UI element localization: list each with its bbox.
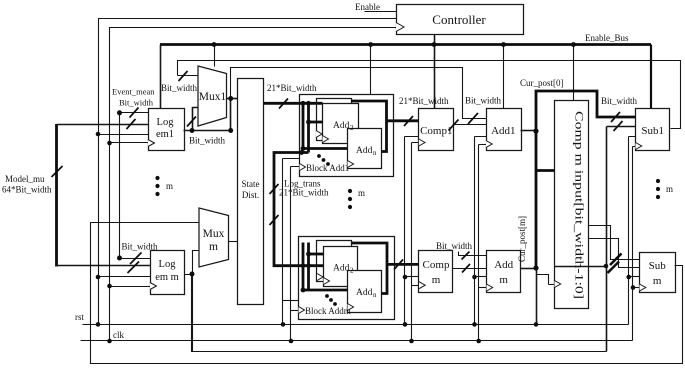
slash on log em1 output riser — [187, 117, 196, 127]
label Bit_width (comp m) — [436, 241, 473, 251]
wire into comp m input box left — [555, 266, 607, 268]
node log em m output — [190, 272, 195, 277]
svg-text:m: m — [166, 181, 173, 191]
controller U1 — [397, 5, 524, 35]
wire block addm feed to addnm — [303, 289, 348, 292]
clock triangle log em m — [150, 283, 157, 290]
mux1 — [198, 66, 227, 126]
wire log em m output node — [185, 251, 199, 352]
clock triangle add m — [487, 284, 493, 291]
svg-text:Cur_post[m]: Cur_post[m] — [517, 216, 527, 262]
svg-text:Dist.: Dist. — [242, 190, 259, 200]
slash on block addm output — [394, 260, 403, 270]
clock triangle stack rect addm — [317, 274, 323, 281]
line3 log em m feedback — [192, 275, 607, 352]
svg-text:m: m — [653, 275, 662, 287]
label Model_mu — [5, 174, 45, 184]
slash on sub1 second input — [614, 121, 623, 131]
wire block addm internal vertical a — [302, 243, 305, 291]
wire rst stub into log em m — [99, 276, 151, 278]
adder Add2 (block addm) — [324, 247, 358, 287]
svg-text:Add: Add — [494, 259, 513, 271]
subtractor Sub1 — [636, 109, 670, 151]
label Block Add1 — [306, 163, 349, 173]
wire comp m input box output a to sub m — [589, 226, 640, 260]
wire comp m input box clock feed — [537, 275, 555, 285]
svg-text:Sub1: Sub1 — [641, 125, 664, 137]
node cur_post[0] — [533, 128, 538, 133]
slashes on comp m to add m wires — [462, 252, 471, 273]
wire enable_bus drop to mux1 select — [214, 45, 216, 67]
label Bit_width (sub1 in) — [601, 96, 638, 106]
slash on log_trans bus lower — [270, 215, 279, 225]
log em m block — [151, 251, 185, 295]
svg-text:2: 2 — [350, 267, 354, 275]
wire controller output to comp1 — [434, 35, 436, 109]
svg-text:21*Bit_width: 21*Bit_width — [267, 83, 317, 93]
wire model_mu to log em m — [57, 265, 151, 267]
node event_mean junction — [117, 110, 122, 260]
label Bit_width (log em1 out) — [189, 136, 226, 146]
label Add2 (block add1) — [333, 121, 354, 132]
node rst junctions — [96, 132, 539, 327]
enable_bus thick horizontal — [160, 43, 651, 46]
wire block addm internal vertical b — [307, 243, 310, 291]
svg-text:Enable: Enable — [355, 2, 380, 12]
slash on log em1 input2 — [127, 119, 136, 129]
svg-text:m: m — [209, 241, 218, 253]
svg-text:64*Bit_width: 64*Bit_width — [2, 185, 52, 195]
wire block add1 internal vertical a — [302, 103, 305, 148]
cur_post[m] thick vertical — [535, 131, 538, 268]
svg-text:Sub: Sub — [649, 260, 667, 272]
ellipsis m between log blocks — [155, 176, 173, 196]
wire enable_bus drop to sub1 — [650, 45, 652, 109]
adder stack rect (behind Add2) — [317, 99, 352, 141]
node clk junctions — [107, 141, 481, 344]
state distributor block — [238, 79, 264, 305]
svg-text:Mux1: Mux1 — [199, 91, 227, 103]
slash model_mu 64*bit_width — [52, 166, 63, 177]
svg-text:Cur_post[0]: Cur_post[0] — [520, 78, 564, 88]
svg-text:Log: Log — [159, 259, 177, 270]
wire sub1 third input — [629, 137, 636, 325]
wire clk stub into log em m — [110, 286, 151, 288]
svg-text:m: m — [432, 274, 441, 286]
svg-text:Event_mean: Event_mean — [112, 87, 155, 97]
wire enable_bus drop to block add1 — [370, 45, 372, 95]
nodes inside block addm — [301, 252, 311, 293]
model_mu thick input — [55, 124, 58, 267]
wire clk vertical to sub1 and sub m — [633, 147, 640, 341]
clock triangle add2m — [324, 278, 330, 285]
node sub m rst input — [626, 275, 631, 280]
wire enable_bus drop to add1 — [503, 45, 505, 109]
label Cur_post[m] rotated — [517, 216, 527, 262]
svg-text:State: State — [242, 179, 260, 189]
svg-text:m: m — [666, 184, 673, 194]
wire add1 output to cur_post node — [521, 130, 537, 132]
wire comp m rst input — [405, 276, 419, 278]
wire rst top line to controller — [99, 19, 397, 325]
label Addn (block add1) — [356, 146, 377, 157]
wire second input to add m — [459, 252, 487, 256]
svg-text:Log: Log — [157, 117, 175, 128]
clk line — [81, 340, 633, 342]
node comp m input box side — [604, 264, 609, 269]
wire mux1 output to state dist — [227, 98, 238, 100]
svg-text:Comp: Comp — [423, 259, 450, 271]
wire add m clk input — [479, 287, 487, 289]
log_trans thick bus to block addm — [274, 153, 324, 266]
slashes on log em m inputs — [128, 253, 142, 274]
label Cur_post[0] — [520, 78, 564, 88]
label Bit_width (mux1 input) — [161, 83, 198, 93]
wire sub1 feedback line to mux1 — [178, 61, 681, 129]
adder Add1 — [487, 109, 522, 151]
label Bit_width (event_mean) — [119, 98, 154, 108]
wire comp m input box output b to sub m — [589, 239, 640, 268]
wire comp m output to add m — [453, 268, 487, 270]
wire event_mean stub into log em m — [120, 258, 151, 260]
wire clk top line to controller — [110, 28, 397, 341]
svg-text:21*Bit_width: 21*Bit_width — [279, 188, 329, 198]
wire block add1 output to comp1 — [387, 119, 419, 122]
wire mux m output to state dist — [229, 241, 238, 243]
wire event_mean input — [119, 113, 121, 259]
slash on 21*bit_width to comp1 — [404, 116, 413, 126]
wire comp m clk input — [412, 285, 419, 287]
wire comp1 output to add1 — [454, 124, 487, 126]
clock triangle log em1 — [148, 140, 155, 147]
block add1 outer box — [300, 95, 394, 177]
ellipsis inside block add1 — [317, 154, 330, 166]
slash on cur_post to sub1 — [611, 112, 620, 122]
wire block addm output to comp m — [387, 263, 419, 266]
svg-text:Comp1: Comp1 — [420, 125, 452, 137]
clock triangle comp m — [419, 282, 425, 289]
clock triangle block addm — [299, 307, 305, 314]
comp m input register (tall box) — [555, 101, 589, 309]
label Bit_width (log em m) — [122, 242, 159, 252]
wire block addm feed to add2m — [309, 253, 324, 256]
svg-text:Block Add1: Block Add1 — [306, 163, 349, 173]
adder Add2 (block add1) — [323, 104, 359, 144]
label Enable — [355, 2, 380, 12]
label Event_mean — [112, 87, 155, 97]
svg-text:Add: Add — [333, 264, 350, 274]
adder Addn (block addm) — [348, 271, 382, 313]
label Add2 (block addm) — [333, 264, 354, 275]
label Log_trans — [284, 179, 321, 189]
node sub m clk — [631, 285, 636, 290]
wire comp1 rst input — [405, 137, 419, 325]
svg-text:2: 2 — [350, 124, 354, 132]
svg-text:21*Bit_width: 21*Bit_width — [399, 96, 449, 106]
adder Addn (block add1) — [348, 129, 382, 169]
label 64*Bit_width — [2, 185, 52, 195]
slash on mux1 upper input — [179, 71, 188, 81]
svg-text:Add: Add — [356, 146, 373, 156]
junction dots on enable_bus — [212, 42, 576, 47]
clock triangle comp1 — [419, 139, 425, 146]
svg-text:Model_mu: Model_mu — [5, 174, 45, 184]
svg-text:Controller: Controller — [432, 12, 486, 27]
svg-text:clk: clk — [113, 330, 124, 340]
wire block add1 feed to addn — [303, 147, 348, 150]
wire clk stub into log em1 — [110, 142, 149, 144]
wire model_mu to log em1 — [57, 124, 149, 126]
svg-text:Bit_width: Bit_width — [601, 96, 638, 106]
wire block addm rst stub — [283, 300, 299, 302]
svg-text:Comp m input[bit_width-1:0]: Comp m input[bit_width-1:0] — [573, 111, 587, 299]
slash on comp1 to add1 wire — [449, 120, 459, 131]
bottom feedback line sub m to mux m — [91, 223, 683, 364]
node log em1 output — [190, 96, 234, 133]
svg-text:Bit_width: Bit_width — [122, 242, 159, 252]
clock triangle add1 — [486, 141, 492, 148]
bold slashes on sub m inputs — [608, 254, 622, 274]
wire block add1 feed to add2 — [309, 121, 323, 124]
wire cur_post node down to rst line — [536, 269, 538, 325]
ellipsis m between sub blocks — [656, 179, 673, 199]
slash on log_trans bus — [270, 184, 279, 194]
wire add m rst input — [475, 276, 487, 278]
wire bit_width line to add1 and add m — [231, 68, 487, 131]
node add m rst — [472, 275, 477, 280]
label clk — [113, 330, 124, 340]
wire enable stub into controller — [365, 11, 397, 13]
slash on add1 upper input riser — [468, 113, 478, 124]
adder Add m — [487, 251, 521, 293]
log em1 block — [149, 109, 185, 151]
node cur_post[m] — [533, 265, 538, 270]
wire sub1 second input from line3 — [607, 127, 636, 352]
wire block add1 internal vertical b — [307, 103, 310, 152]
svg-text:Mux: Mux — [203, 228, 225, 240]
svg-text:Enable_Bus: Enable_Bus — [585, 33, 629, 43]
label 21*Bit_width (log_trans) — [279, 188, 329, 198]
clock triangle addnm — [348, 304, 354, 311]
clock triangle controller — [396, 23, 404, 32]
wire block addm clk stub — [291, 310, 299, 312]
comparator Comp m — [419, 251, 453, 293]
wire block addm output collector — [352, 243, 387, 294]
svg-text:Add1: Add1 — [491, 125, 515, 137]
label 21*Bit_width (state out) — [267, 83, 317, 93]
mux m — [199, 208, 229, 267]
block addm outer box — [299, 237, 395, 320]
wire enable_bus drop to log em1 — [160, 45, 162, 109]
svg-text:Add: Add — [333, 121, 350, 131]
nodes inside block add1 — [299, 101, 311, 155]
label 21*Bit_width (comp1 in) — [399, 96, 449, 106]
comparator Comp1 — [419, 109, 454, 151]
wire log em1 output node — [184, 99, 231, 131]
svg-text:Bit_width: Bit_width — [119, 98, 154, 108]
ellipsis m between comp blocks — [348, 188, 365, 209]
svg-text:m: m — [358, 188, 365, 198]
ellipsis inside block addm — [325, 294, 337, 306]
cur_post[0] thick wire to sub1 — [536, 91, 636, 131]
wire add1 clk input — [479, 145, 487, 341]
label Bit_width (add1 in) — [465, 96, 502, 106]
clock triangle comp m input box — [555, 281, 561, 288]
svg-text:em1: em1 — [156, 129, 174, 140]
clock triangle sub m — [640, 284, 646, 291]
clock triangle add2 — [323, 136, 329, 143]
wire block add1 clk stub — [291, 167, 300, 341]
wire enable_bus drop to comp m input box — [573, 45, 575, 101]
svg-text:Bit_width: Bit_width — [189, 136, 226, 146]
adder stack rect (behind Add2 m) — [317, 241, 352, 282]
svg-text:rst: rst — [75, 312, 84, 322]
node comp m rst — [403, 275, 408, 280]
svg-text:em m: em m — [155, 272, 179, 283]
svg-text:Bit_width: Bit_width — [465, 96, 502, 106]
wire block add1 output collector — [351, 101, 387, 152]
slash bit_width on log em1 input1 — [130, 108, 139, 118]
wire cur_post branch into comp m input box — [536, 169, 555, 172]
svg-text:m: m — [499, 274, 508, 286]
wire add1 rst input — [475, 137, 487, 325]
wire block add1 rst stub — [283, 159, 300, 325]
rst line — [83, 324, 629, 326]
label Addn (block addm) — [356, 288, 377, 299]
subtractor Sub m — [640, 253, 676, 293]
clock triangle sub1 — [636, 143, 642, 150]
wire comp1 clk input — [412, 143, 419, 341]
label rst — [75, 312, 84, 322]
wire event_mean stub into log em1 — [120, 112, 149, 114]
wire sub m third input stub — [629, 276, 640, 278]
svg-text:n: n — [373, 149, 377, 157]
svg-text:Block Addm: Block Addm — [305, 306, 351, 316]
svg-text:Bit_width: Bit_width — [161, 83, 198, 93]
wire add m output to cur_post node — [521, 268, 537, 270]
svg-text:Add: Add — [356, 288, 373, 298]
wire rst stub into log em1 — [99, 134, 149, 136]
svg-text:Bit_width: Bit_width — [436, 241, 473, 251]
svg-text:n: n — [373, 291, 377, 299]
clock triangle stack rect add1 — [316, 131, 322, 138]
label Enable_Bus — [585, 33, 629, 43]
slash on state dist output — [279, 99, 288, 109]
label Block Addm — [305, 306, 351, 316]
clock triangle addn — [348, 161, 354, 168]
wire state dist thick output to block add1 — [264, 102, 323, 105]
clock triangle block add1 — [300, 164, 306, 171]
